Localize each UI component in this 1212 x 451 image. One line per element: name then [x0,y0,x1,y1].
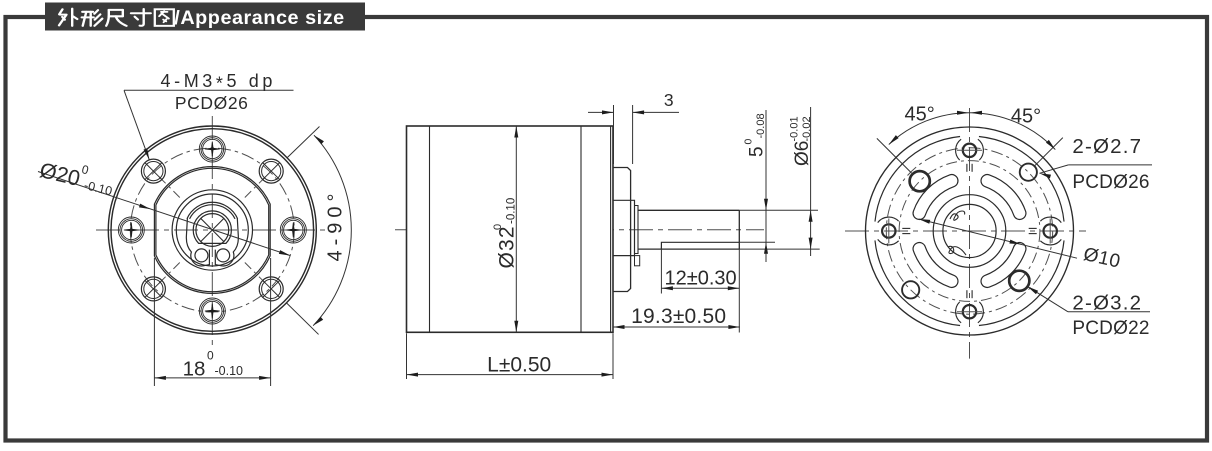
svg-text:12±0.30: 12±0.30 [665,268,737,290]
svg-text:Ø32: Ø32 [496,225,519,268]
svg-text:PCDØ22: PCDØ22 [1072,318,1149,339]
svg-text:2-Ø2.7: 2-Ø2.7 [1072,135,1142,158]
svg-text:2-Ø3.2: 2-Ø3.2 [1072,292,1142,315]
svg-text:-0.02: -0.02 [801,116,813,141]
svg-text:0: 0 [743,139,755,145]
svg-text:45°: 45° [1011,106,1041,128]
svg-text:Ø6: Ø6 [792,141,813,166]
svg-text:-0.10: -0.10 [215,364,244,378]
svg-text:PCDØ26: PCDØ26 [1072,172,1149,193]
svg-text:5: 5 [747,146,768,157]
svg-text:4-M3*5 dp: 4-M3*5 dp [161,71,276,94]
svg-text:0: 0 [207,349,214,363]
svg-text:19.3±0.50: 19.3±0.50 [631,305,726,328]
svg-text:0: 0 [492,224,504,230]
svg-text:3: 3 [664,90,674,110]
svg-text:/Appearance size: /Appearance size [174,7,344,29]
svg-text:PCDØ26: PCDØ26 [175,93,249,113]
svg-text:-0.10: -0.10 [506,198,518,224]
svg-text:-0.08: -0.08 [755,113,767,138]
svg-text:45°: 45° [904,104,934,126]
svg-text:4-90°: 4-90° [325,188,347,261]
svg-text:-0.01: -0.01 [789,116,801,141]
svg-text:L±0.50: L±0.50 [487,354,551,377]
svg-text:18: 18 [183,358,206,381]
